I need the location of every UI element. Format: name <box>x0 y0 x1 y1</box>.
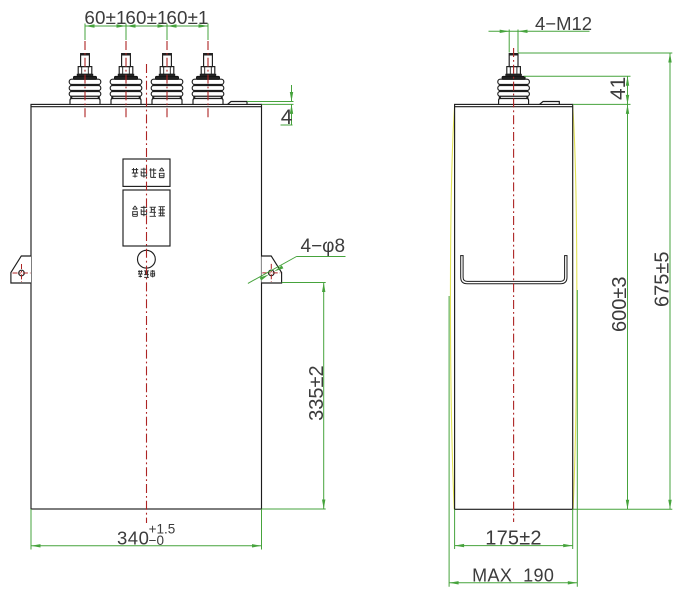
arrows 60 dims <box>85 24 95 27</box>
svg-text:675±5: 675±5 <box>651 252 673 307</box>
bushings front view <box>69 54 101 105</box>
certificate text <box>138 270 143 277</box>
ext lines 340 <box>30 509 32 550</box>
lid plate (4mm) front view <box>228 102 248 105</box>
lid seam line <box>31 106 262 108</box>
dim line M12 <box>489 30 590 32</box>
svg-text:60±1: 60±1 <box>166 7 208 28</box>
bracket hole left <box>19 270 25 276</box>
svg-text:41: 41 <box>607 77 630 100</box>
lid plate side view <box>540 102 560 105</box>
dim extension stubs top <box>84 24 86 41</box>
dim line 600 <box>627 104 629 509</box>
dim line 335 <box>323 283 325 510</box>
dim ext lines 4mm plate <box>247 101 294 103</box>
bracket hole right (4-x98) <box>269 270 275 276</box>
leader arrows at hole <box>274 265 283 271</box>
ext line porcelain top <box>524 75 631 77</box>
svg-text:4−φ8: 4−φ8 <box>301 236 346 257</box>
ext lines MAX190 <box>448 296 450 587</box>
ext line lid top right <box>573 103 631 105</box>
red centerline tank front <box>146 64 148 523</box>
svg-text:340: 340 <box>117 527 149 548</box>
capacitor tank (front view) <box>31 104 262 509</box>
arrows 4mm <box>290 92 293 102</box>
ext line bracket bottom <box>282 282 326 284</box>
svg-text:4: 4 <box>281 106 293 129</box>
mounting bracket right <box>262 256 282 283</box>
svg-text:600±3: 600±3 <box>609 277 631 332</box>
warning label box <box>123 159 170 186</box>
handle (side view) <box>462 256 566 283</box>
dim line 60x3 <box>85 25 208 27</box>
red cross bracket left <box>13 272 31 274</box>
ext line tank bottom right <box>262 508 326 510</box>
leader line 4-phi8 <box>248 257 297 284</box>
nameplate text <box>132 206 138 216</box>
svg-text:60±1: 60±1 <box>84 7 126 28</box>
svg-text:335±2: 335±2 <box>306 365 328 420</box>
bulge profile right (yellow) <box>573 106 577 509</box>
red centerlines bushings front <box>84 41 86 118</box>
dim line 340 <box>31 545 262 547</box>
red cross bracket right <box>262 272 280 274</box>
dim line 4mm vertical <box>291 85 293 102</box>
dim line 675 <box>669 53 671 509</box>
dim line 175 <box>455 545 573 547</box>
nameplate box <box>123 190 170 246</box>
warning label text <box>132 168 138 178</box>
lid seam line side <box>455 106 573 108</box>
svg-text:60±1: 60±1 <box>125 7 167 28</box>
ext stubs M12 <box>508 30 510 53</box>
dim line 41 <box>627 76 629 104</box>
bushing side view <box>498 54 530 105</box>
certificate circle <box>138 250 156 268</box>
ext lines 175 <box>454 509 456 549</box>
ext line bushing top <box>518 52 672 54</box>
bulge profile left (yellow) <box>450 106 454 509</box>
svg-text:MAX 190: MAX 190 <box>472 565 554 585</box>
ext line tank bottom to right <box>573 508 673 510</box>
svg-text:4−M12: 4−M12 <box>535 13 592 34</box>
svg-text:175±2: 175±2 <box>485 527 541 549</box>
mounting bracket left <box>11 256 31 283</box>
dim line MAX190 <box>449 582 577 584</box>
red centerline side <box>513 48 515 522</box>
capacitor tank (side view) <box>455 104 573 509</box>
svg-text:−0: −0 <box>149 533 164 548</box>
